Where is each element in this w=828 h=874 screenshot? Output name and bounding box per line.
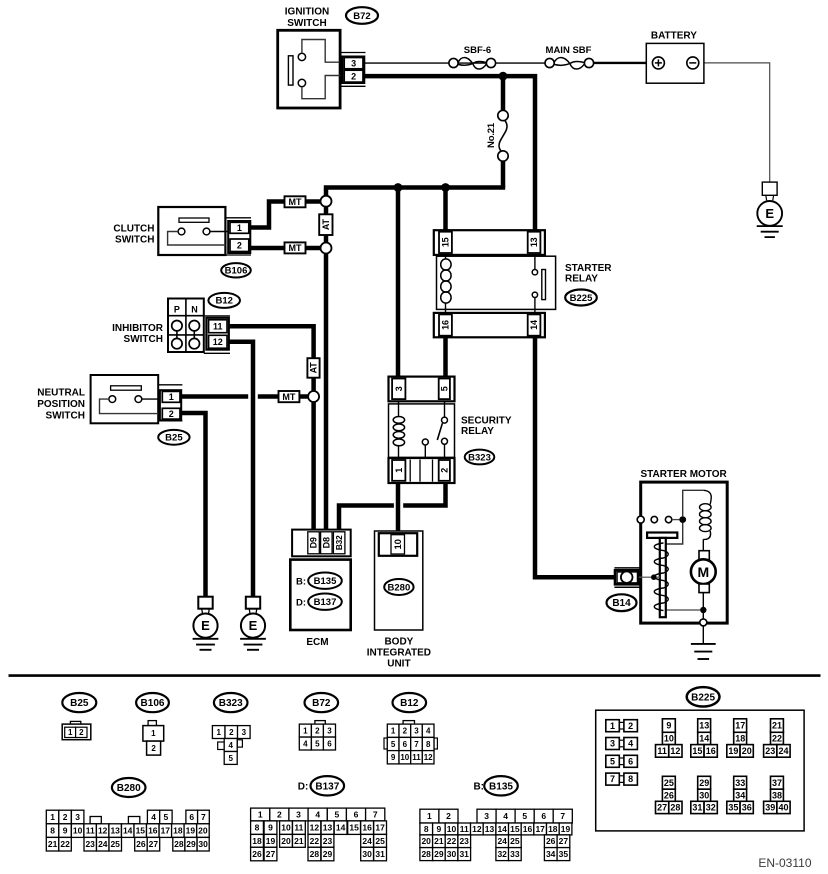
svg-text:29: 29	[323, 849, 333, 859]
svg-text:6: 6	[403, 740, 408, 749]
svg-text:D:: D:	[298, 781, 309, 792]
svg-text:10: 10	[73, 826, 83, 836]
svg-text:32: 32	[706, 803, 716, 813]
svg-text:7: 7	[373, 810, 378, 820]
svg-text:16: 16	[362, 823, 372, 833]
svg-text:5: 5	[522, 811, 527, 821]
svg-text:21: 21	[434, 836, 444, 846]
svg-text:4: 4	[151, 812, 156, 822]
svg-text:8: 8	[50, 826, 55, 836]
svg-text:SWITCH: SWITCH	[124, 334, 163, 345]
svg-text:D:: D:	[296, 598, 306, 609]
svg-text:25: 25	[664, 778, 674, 788]
svg-text:1: 1	[610, 721, 615, 731]
svg-text:14: 14	[123, 826, 133, 836]
svg-text:7: 7	[414, 740, 419, 749]
svg-text:21: 21	[772, 721, 782, 731]
svg-text:16: 16	[441, 320, 451, 330]
svg-text:B14: B14	[612, 598, 631, 609]
svg-text:MT: MT	[289, 197, 302, 207]
svg-text:18: 18	[173, 826, 183, 836]
svg-text:1: 1	[50, 812, 55, 822]
svg-text:3: 3	[75, 812, 80, 822]
svg-text:1: 1	[394, 468, 404, 473]
svg-text:10: 10	[664, 734, 674, 744]
svg-text:29: 29	[186, 839, 196, 849]
svg-text:3: 3	[296, 810, 301, 820]
svg-text:B:: B:	[296, 577, 306, 588]
svg-text:2: 2	[79, 728, 84, 737]
svg-text:18: 18	[548, 824, 558, 834]
svg-text:22: 22	[310, 836, 320, 846]
svg-text:8: 8	[424, 824, 429, 834]
svg-text:MAIN SBF: MAIN SBF	[546, 45, 592, 56]
svg-text:17: 17	[161, 826, 171, 836]
svg-text:RELAY: RELAY	[461, 426, 494, 437]
svg-text:MT: MT	[289, 243, 302, 253]
svg-text:25: 25	[510, 836, 520, 846]
svg-text:27: 27	[149, 839, 159, 849]
svg-text:MT: MT	[282, 392, 295, 402]
svg-text:AT: AT	[321, 219, 331, 231]
svg-text:17: 17	[735, 721, 745, 731]
svg-text:11: 11	[657, 746, 667, 756]
svg-text:15: 15	[136, 826, 146, 836]
svg-text:NEUTRAL: NEUTRAL	[37, 388, 85, 399]
svg-text:B25: B25	[165, 433, 183, 444]
svg-text:B135: B135	[314, 576, 337, 587]
svg-text:No.21: No.21	[486, 122, 497, 148]
svg-text:4: 4	[426, 727, 431, 736]
svg-text:RELAY: RELAY	[565, 274, 598, 285]
svg-text:26: 26	[664, 790, 674, 800]
svg-text:1: 1	[169, 392, 174, 402]
svg-text:INTEGRATED: INTEGRATED	[367, 647, 431, 658]
svg-text:3: 3	[327, 726, 332, 735]
svg-text:39: 39	[765, 803, 775, 813]
svg-text:6: 6	[189, 812, 194, 822]
svg-text:3: 3	[351, 58, 356, 68]
svg-text:23: 23	[323, 836, 333, 846]
svg-text:2: 2	[169, 409, 174, 419]
svg-text:6: 6	[354, 810, 359, 820]
svg-text:30: 30	[447, 849, 457, 859]
svg-text:11: 11	[294, 823, 303, 833]
svg-text:STARTER MOTOR: STARTER MOTOR	[640, 469, 727, 480]
svg-text:17: 17	[375, 823, 385, 833]
svg-text:14: 14	[529, 320, 539, 330]
svg-text:37: 37	[772, 778, 782, 788]
svg-text:14: 14	[497, 824, 507, 834]
svg-text:15: 15	[510, 824, 520, 834]
svg-text:23: 23	[85, 839, 95, 849]
svg-text:11: 11	[460, 824, 469, 834]
svg-text:B135: B135	[489, 781, 513, 792]
svg-text:19: 19	[561, 824, 571, 834]
svg-text:B72: B72	[312, 698, 331, 709]
svg-text:15: 15	[349, 823, 359, 833]
svg-text:34: 34	[735, 790, 745, 800]
svg-text:13: 13	[529, 237, 539, 247]
svg-text:8: 8	[426, 740, 431, 749]
svg-text:12: 12	[472, 824, 482, 834]
svg-text:12: 12	[98, 826, 108, 836]
svg-text:24: 24	[778, 746, 788, 756]
svg-text:5: 5	[391, 740, 396, 749]
svg-text:2: 2	[237, 240, 242, 250]
svg-text:36: 36	[742, 803, 752, 813]
svg-text:N: N	[191, 304, 198, 314]
svg-text:1: 1	[303, 726, 308, 735]
svg-text:29: 29	[699, 778, 709, 788]
svg-text:12: 12	[424, 753, 433, 762]
svg-text:24: 24	[497, 836, 507, 846]
svg-text:B12: B12	[400, 698, 419, 709]
svg-text:B32: B32	[334, 535, 344, 550]
svg-text:17: 17	[535, 824, 545, 834]
svg-text:13: 13	[323, 823, 333, 833]
svg-text:16: 16	[523, 824, 533, 834]
svg-text:33: 33	[735, 778, 745, 788]
svg-text:16: 16	[148, 826, 158, 836]
svg-text:B106: B106	[225, 266, 248, 277]
svg-text:SECURITY: SECURITY	[461, 415, 512, 426]
svg-text:11: 11	[412, 753, 421, 762]
svg-text:STARTER: STARTER	[565, 263, 612, 274]
svg-text:6: 6	[628, 757, 633, 767]
svg-text:11: 11	[86, 826, 95, 836]
svg-text:24: 24	[362, 836, 372, 846]
svg-text:27: 27	[559, 836, 569, 846]
svg-text:B137: B137	[315, 781, 339, 792]
svg-text:21: 21	[294, 836, 304, 846]
svg-text:SWITCH: SWITCH	[46, 411, 85, 422]
svg-text:16: 16	[706, 746, 716, 756]
svg-text:9: 9	[437, 824, 442, 834]
svg-text:SBF-6: SBF-6	[464, 45, 491, 56]
svg-text:SWITCH: SWITCH	[115, 235, 154, 246]
svg-text:B323: B323	[219, 698, 243, 709]
svg-text:D8: D8	[321, 537, 331, 548]
svg-text:30: 30	[362, 849, 372, 859]
svg-text:22: 22	[60, 839, 70, 849]
svg-text:P: P	[174, 304, 180, 314]
svg-text:28: 28	[310, 849, 320, 859]
svg-text:1: 1	[427, 811, 432, 821]
svg-text:25: 25	[375, 836, 385, 846]
svg-text:B12: B12	[215, 296, 232, 307]
svg-text:7: 7	[560, 811, 565, 821]
svg-text:22: 22	[772, 734, 782, 744]
svg-text:15: 15	[692, 746, 702, 756]
svg-text:AT: AT	[309, 362, 319, 374]
svg-text:10: 10	[281, 823, 291, 833]
svg-text:30: 30	[699, 790, 709, 800]
svg-text:35: 35	[728, 803, 738, 813]
svg-text:30: 30	[198, 839, 208, 849]
svg-text:32: 32	[497, 849, 507, 859]
svg-text:UNIT: UNIT	[387, 658, 410, 669]
svg-text:26: 26	[136, 839, 146, 849]
svg-text:E: E	[249, 618, 258, 633]
svg-text:20: 20	[281, 836, 291, 846]
svg-text:9: 9	[63, 826, 68, 836]
svg-text:18: 18	[252, 836, 262, 846]
svg-text:BATTERY: BATTERY	[651, 31, 697, 42]
svg-text:6: 6	[541, 811, 546, 821]
svg-text:23: 23	[765, 746, 775, 756]
svg-text:5: 5	[315, 739, 320, 748]
svg-text:7: 7	[610, 774, 615, 784]
svg-text:20: 20	[421, 836, 431, 846]
svg-text:B72: B72	[353, 11, 370, 22]
svg-text:9: 9	[391, 753, 396, 762]
svg-text:26: 26	[546, 836, 556, 846]
svg-text:8: 8	[628, 774, 633, 784]
svg-text:D9: D9	[309, 537, 319, 548]
svg-text:19: 19	[728, 746, 738, 756]
svg-text:12: 12	[310, 823, 320, 833]
svg-text:B137: B137	[314, 597, 337, 608]
svg-text:10: 10	[447, 824, 457, 834]
svg-text:21: 21	[48, 839, 58, 849]
svg-text:26: 26	[252, 849, 262, 859]
svg-text:20: 20	[742, 746, 752, 756]
svg-text:1: 1	[151, 729, 156, 738]
svg-text:12: 12	[670, 746, 680, 756]
svg-text:6: 6	[327, 739, 332, 748]
svg-text:B280: B280	[388, 582, 411, 593]
svg-text:15: 15	[441, 237, 451, 247]
svg-text:38: 38	[772, 790, 782, 800]
svg-text:25: 25	[110, 839, 120, 849]
svg-text:29: 29	[434, 849, 444, 859]
svg-text:19: 19	[186, 826, 196, 836]
svg-text:E: E	[201, 618, 210, 633]
svg-text:B:: B:	[473, 781, 484, 792]
svg-text:33: 33	[510, 849, 520, 859]
svg-text:14: 14	[336, 823, 346, 833]
svg-text:9: 9	[666, 721, 671, 731]
svg-text:1: 1	[68, 728, 73, 737]
svg-text:5: 5	[335, 810, 340, 820]
svg-text:34: 34	[546, 849, 556, 859]
svg-text:18: 18	[735, 734, 745, 744]
svg-text:2: 2	[229, 728, 234, 737]
svg-text:3: 3	[484, 811, 489, 821]
svg-text:M: M	[697, 564, 709, 580]
svg-text:11: 11	[213, 321, 223, 331]
svg-text:19: 19	[266, 836, 276, 846]
svg-text:1: 1	[216, 728, 221, 737]
svg-text:40: 40	[778, 803, 788, 813]
svg-text:22: 22	[447, 836, 457, 846]
svg-text:1: 1	[237, 223, 242, 233]
svg-text:1: 1	[391, 727, 396, 736]
svg-text:2: 2	[151, 744, 156, 753]
svg-text:28: 28	[670, 803, 680, 813]
svg-text:5: 5	[439, 386, 449, 391]
svg-text:31: 31	[375, 849, 385, 859]
svg-text:31: 31	[692, 803, 702, 813]
svg-text:B225: B225	[570, 293, 593, 304]
svg-text:2: 2	[446, 811, 451, 821]
svg-text:13: 13	[699, 721, 709, 731]
svg-text:5: 5	[228, 754, 233, 763]
svg-text:INHIBITOR: INHIBITOR	[112, 323, 164, 334]
svg-text:B106: B106	[141, 698, 165, 709]
svg-text:8: 8	[255, 823, 260, 833]
svg-text:28: 28	[174, 839, 184, 849]
svg-text:24: 24	[98, 839, 108, 849]
svg-text:2: 2	[277, 810, 282, 820]
svg-text:5: 5	[164, 812, 169, 822]
svg-text:E: E	[765, 206, 774, 221]
svg-text:27: 27	[657, 803, 667, 813]
svg-text:9: 9	[268, 823, 273, 833]
svg-text:2: 2	[439, 468, 449, 473]
svg-text:IGNITION: IGNITION	[285, 7, 329, 18]
svg-text:14: 14	[699, 734, 709, 744]
svg-text:2: 2	[403, 727, 408, 736]
svg-text:10: 10	[393, 539, 404, 549]
svg-text:2: 2	[628, 721, 633, 731]
svg-text:2: 2	[315, 726, 320, 735]
svg-text:13: 13	[485, 824, 495, 834]
svg-text:4: 4	[303, 739, 308, 748]
svg-text:4: 4	[503, 811, 508, 821]
svg-text:EN-03110: EN-03110	[758, 856, 811, 870]
svg-text:B280: B280	[117, 783, 141, 794]
svg-text:3: 3	[394, 386, 404, 391]
svg-text:10: 10	[400, 753, 409, 762]
svg-text:CLUTCH: CLUTCH	[113, 223, 154, 234]
svg-text:3: 3	[414, 727, 419, 736]
svg-text:20: 20	[198, 826, 208, 836]
svg-text:B323: B323	[468, 452, 491, 463]
svg-text:POSITION: POSITION	[37, 399, 85, 410]
svg-text:27: 27	[266, 849, 276, 859]
svg-text:BODY: BODY	[384, 637, 413, 648]
svg-text:4: 4	[228, 741, 233, 750]
svg-text:3: 3	[242, 728, 247, 737]
svg-text:13: 13	[110, 826, 120, 836]
svg-text:ECM: ECM	[306, 637, 328, 648]
svg-text:5: 5	[610, 757, 615, 767]
svg-text:31: 31	[459, 849, 469, 859]
svg-text:2: 2	[63, 812, 68, 822]
svg-text:1: 1	[258, 810, 263, 820]
svg-text:35: 35	[559, 849, 569, 859]
svg-text:23: 23	[459, 836, 469, 846]
svg-text:3: 3	[610, 739, 615, 749]
svg-text:12: 12	[213, 337, 223, 347]
svg-text:4: 4	[628, 739, 633, 749]
svg-text:SWITCH: SWITCH	[287, 18, 326, 29]
svg-text:B225: B225	[691, 692, 715, 703]
svg-text:7: 7	[201, 812, 206, 822]
svg-text:2: 2	[351, 71, 356, 81]
svg-text:4: 4	[315, 810, 320, 820]
svg-text:28: 28	[421, 849, 431, 859]
svg-text:B25: B25	[70, 698, 89, 709]
